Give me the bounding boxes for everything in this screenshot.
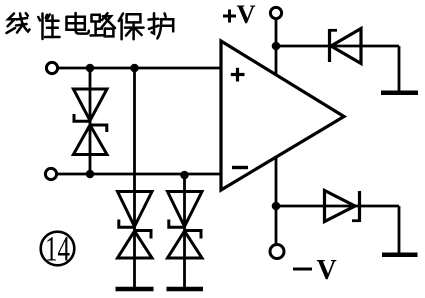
svg-text:14: 14 [45, 229, 70, 269]
svg-text:V: V [237, 0, 256, 29]
svg-text:V: V [317, 255, 337, 286]
